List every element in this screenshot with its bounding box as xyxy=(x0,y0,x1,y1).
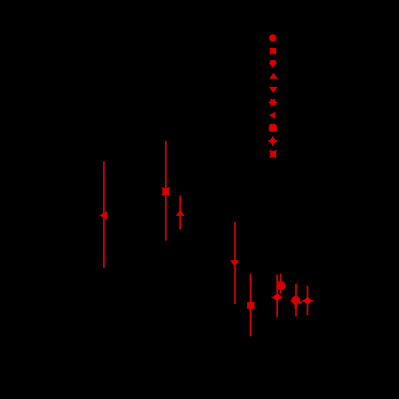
series 3 triangle-up marker xyxy=(176,210,185,216)
series 4 triangle-down marker xyxy=(230,260,239,267)
legend marker 3: pentagon-down xyxy=(269,60,277,68)
series 8 round blob marker xyxy=(291,296,300,305)
legend marker 9: thin-diamond-cross xyxy=(269,137,277,145)
series 1 triangle-left marker xyxy=(99,211,107,220)
series 7 octagon marker xyxy=(277,281,286,290)
errorbar series 3 line xyxy=(179,196,181,230)
errorbar series 8 line xyxy=(295,284,297,317)
legend marker 4: triangle-up xyxy=(269,73,278,79)
series 5 square marker xyxy=(247,302,254,309)
errorbar series 6 line (diamond series) xyxy=(276,274,278,317)
errorbar series 2 line xyxy=(165,141,167,241)
legend marker 5: triangle-down xyxy=(269,87,278,93)
errorbar series 4 line xyxy=(234,222,236,304)
legend marker 10: X marker xyxy=(270,151,276,157)
legend marker 2: square xyxy=(270,48,276,54)
legend marker 1: circle xyxy=(269,34,277,42)
series 2 X marker xyxy=(163,188,170,195)
errorbar series 9 line xyxy=(307,286,309,315)
legend marker 6: six-point star xyxy=(268,98,277,106)
errorbar series 1 line xyxy=(103,162,105,268)
series 6 diamond marker xyxy=(272,293,282,301)
series 9 thin-diamond-cross marker xyxy=(303,296,312,305)
errorbar series 7 line (octagon series) xyxy=(280,273,282,293)
legend marker 7: triangle-left xyxy=(269,112,275,119)
errorbar series 5 line xyxy=(250,274,252,336)
legend marker 8: octagon xyxy=(269,124,277,132)
